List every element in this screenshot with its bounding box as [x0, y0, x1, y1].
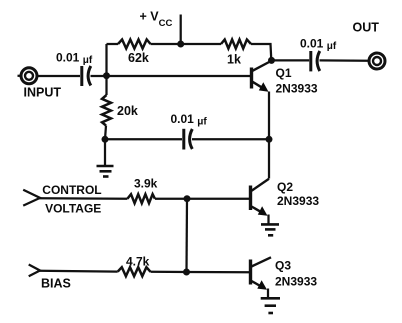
capacitor C1 0.01uf: [82, 66, 91, 86]
wire C2 to output connector: [320, 59, 369, 62]
wire node C to Q3 base: [187, 271, 250, 274]
svg-text:2N3933: 2N3933: [275, 274, 317, 288]
wire Q3 emitter to ground G3: [267, 289, 269, 298]
wire node B to Q2 base: [187, 198, 249, 200]
transistor Q1 base bar: [250, 68, 253, 89]
transistor Q3 emitter lead with arrow: [252, 280, 268, 290]
transistor Q3 collector lead: [252, 257, 272, 266]
svg-text:4.7k: 4.7k: [126, 254, 150, 268]
node A junction: [103, 72, 110, 79]
wire Q2 emitter to ground G2: [267, 215, 269, 224]
resistor 1k: [221, 40, 251, 49]
capacitor C2 0.01uf: [311, 51, 320, 71]
transistor Q2 emitter lead with arrow: [252, 206, 268, 216]
wire 1k to corner then down to collector node: [251, 44, 271, 60]
input connector J1: [18, 68, 38, 84]
svg-text:62k: 62k: [128, 51, 149, 65]
wire C1 to node A: [91, 75, 107, 77]
svg-text:BIAS: BIAS: [41, 276, 71, 290]
wire input to C1: [38, 75, 81, 77]
wire 4.7k to node C: [151, 271, 187, 273]
wire 3.9k to node B: [155, 198, 187, 200]
svg-text:CONTROL: CONTROL: [42, 183, 101, 197]
node B junction: [184, 195, 191, 202]
node emitter line junction: [266, 136, 273, 143]
wire node B down to node C: [185, 199, 188, 272]
resistor 20k top lead: [105, 76, 107, 95]
wire junction down to ground G1: [104, 139, 106, 165]
output connector J2: [369, 53, 385, 69]
control voltage source arrow: [23, 190, 40, 206]
capacitor C3 0.01uf: [184, 129, 193, 150]
svg-text:VOLTAGE: VOLTAGE: [45, 201, 101, 215]
wire node A up to top rail: [105, 44, 107, 76]
resistor 4.7k: [118, 267, 151, 276]
svg-text:2N3933: 2N3933: [277, 194, 319, 208]
svg-text:Q3: Q3: [275, 259, 291, 273]
svg-text:OUT: OUT: [353, 21, 380, 35]
wire bias to 4.7k: [39, 270, 118, 273]
node Vcc junction: [177, 41, 184, 48]
wire control to 3.9k: [39, 197, 127, 200]
node 20k bottom junction: [102, 136, 109, 143]
transistor Q2 collector lead: [252, 179, 270, 191]
wire 62k to Vcc node: [151, 43, 222, 45]
wire 20k bottom lead: [105, 126, 106, 140]
wire C3 to emitter line: [192, 138, 269, 140]
resistor 20k: [102, 95, 111, 126]
wire node A to Q1 base: [107, 75, 251, 77]
transistor Q1 emitter lead with arrow: [253, 82, 269, 92]
ground G1: [97, 166, 114, 177]
svg-text:2N3933: 2N3933: [276, 81, 318, 95]
wire collector node to C2: [272, 59, 310, 61]
power +Vcc lead: [180, 15, 182, 45]
resistor 62k: [118, 40, 151, 49]
svg-text:Q1: Q1: [276, 66, 292, 80]
wire Q1 emitter down to Q2 collector: [268, 92, 270, 179]
transistor Q3 base bar: [249, 260, 252, 285]
ground G2: [261, 224, 279, 235]
node collector junction: [268, 57, 275, 64]
wire top rail left lead: [107, 43, 119, 45]
transistor Q1 collector lead: [253, 61, 272, 71]
svg-text:INPUT: INPUT: [24, 86, 62, 100]
svg-text:1k: 1k: [227, 53, 241, 67]
ground G3: [261, 298, 280, 313]
bias source arrow: [29, 265, 40, 277]
wire junction to C3: [105, 138, 182, 140]
node C junction: [183, 269, 190, 276]
resistor 3.9k: [127, 194, 154, 203]
svg-text:3.9k: 3.9k: [134, 177, 158, 191]
svg-text:20k: 20k: [117, 104, 138, 118]
svg-text:Q2: Q2: [277, 180, 293, 194]
transistor Q2 base bar: [249, 186, 252, 211]
